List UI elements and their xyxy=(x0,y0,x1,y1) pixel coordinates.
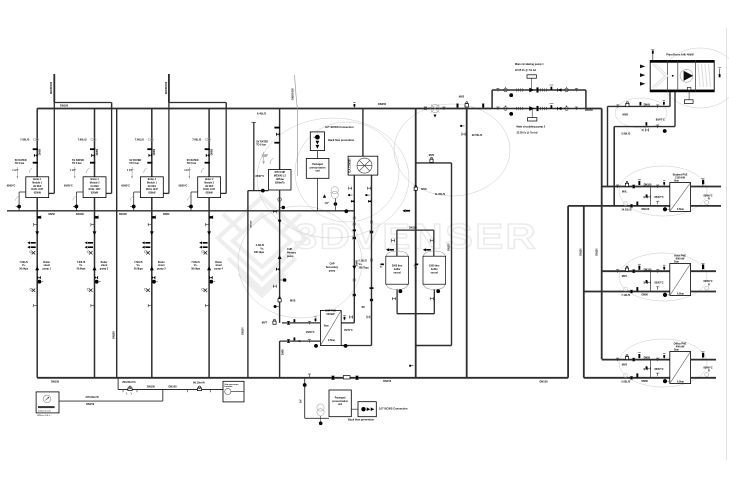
svg-text:96.10m³/h: 96.10m³/h xyxy=(193,381,205,385)
svg-text:MVD: MVD xyxy=(623,114,629,117)
svg-text:pump 2: pump 2 xyxy=(100,268,109,271)
svg-text:6.5bar: 6.5bar xyxy=(677,208,684,211)
svg-text:DN150: DN150 xyxy=(585,109,593,112)
svg-text:vessel: vessel xyxy=(393,271,401,274)
svg-text:DUAL 1047: DUAL 1047 xyxy=(31,188,44,191)
svg-text:WRxxx 8 8 x °: WRxxx 8 8 x ° xyxy=(37,415,51,417)
svg-text:400 kW: 400 kW xyxy=(676,346,685,349)
svg-text:5.60L/S: 5.60L/S xyxy=(621,380,630,383)
svg-text:7.60L/S: 7.60L/S xyxy=(78,137,87,141)
svg-text:1 1/2": 1 1/2" xyxy=(262,155,268,158)
svg-text:5bar: 5bar xyxy=(324,325,329,328)
svg-text:DN100: DN100 xyxy=(169,385,178,389)
svg-text:DN150: DN150 xyxy=(540,379,549,383)
svg-text:Module 1: Module 1 xyxy=(32,183,42,185)
svg-text:0.69L/S: 0.69L/S xyxy=(622,133,631,136)
svg-text:7.60L/S: 7.60L/S xyxy=(20,137,29,141)
svg-text:56.0kpa: 56.0kpa xyxy=(77,268,86,271)
svg-text:MVS: MVS xyxy=(459,96,465,99)
svg-text:DN50: DN50 xyxy=(96,148,99,155)
svg-text:DN250: DN250 xyxy=(378,102,387,106)
svg-text:920kwTh: 920kwTh xyxy=(275,182,285,184)
svg-text:DN150/300: DN150/300 xyxy=(50,81,53,94)
svg-text:ME3042 L3: ME3042 L3 xyxy=(274,175,287,178)
svg-text:Module 1: Module 1 xyxy=(147,183,157,185)
svg-text:DN100: DN100 xyxy=(642,208,650,211)
svg-text:6.40L/S: 6.40L/S xyxy=(257,111,266,115)
svg-text:85/67°C: 85/67°C xyxy=(655,196,664,199)
svg-text:1 1/4": 1 1/4" xyxy=(184,169,190,172)
svg-text:DN80: DN80 xyxy=(642,380,649,383)
svg-text:DUAL 1047: DUAL 1047 xyxy=(203,188,216,191)
svg-text:pump 3: pump 3 xyxy=(157,268,166,271)
svg-text:DN150: DN150 xyxy=(597,248,599,256)
svg-text:unit: unit xyxy=(338,403,342,406)
svg-text:MVT: MVT xyxy=(262,322,268,325)
svg-text:iGi REX: iGi REX xyxy=(148,186,157,188)
svg-text:620kW: 620kW xyxy=(206,192,214,194)
svg-text:1 1/4": 1 1/4" xyxy=(70,169,76,172)
svg-text:iGi REX: iGi REX xyxy=(90,186,99,188)
svg-text:treatment unit: treatment unit xyxy=(38,409,51,412)
svg-text:Module 2: Module 2 xyxy=(90,183,100,185)
svg-text:pressurisation: pressurisation xyxy=(310,166,326,169)
svg-text:TO 6 bar: TO 6 bar xyxy=(15,162,25,165)
svg-text:Main circulating pump 1: Main circulating pump 1 xyxy=(515,63,544,66)
svg-text:MVC: MVC xyxy=(622,275,628,278)
svg-text:1 1/4": 1 1/4" xyxy=(12,169,18,172)
svg-text:unit: unit xyxy=(315,170,319,173)
svg-text:197kwe: 197kwe xyxy=(276,179,285,181)
svg-text:DN150: DN150 xyxy=(581,248,583,256)
svg-text:DUAL 1047: DUAL 1047 xyxy=(146,188,159,191)
svg-text:56.0kpa: 56.0kpa xyxy=(191,268,200,271)
svg-text:DN150: DN150 xyxy=(51,380,60,384)
svg-text:R: R xyxy=(708,370,710,373)
svg-text:Boiler 2: Boiler 2 xyxy=(205,178,214,181)
svg-text:300.7kpa: 300.7kpa xyxy=(359,267,370,270)
svg-text:196.1kpa: 196.1kpa xyxy=(254,251,265,254)
svg-text:TO 6 bar: TO 6 bar xyxy=(129,162,139,165)
svg-text:DN150/300: DN150/300 xyxy=(165,81,168,94)
svg-text:MVS: MVS xyxy=(429,154,435,157)
svg-text:14.10L/S: 14.10L/S xyxy=(621,209,631,212)
svg-text:620kW: 620kW xyxy=(34,192,42,194)
svg-text:5bar: 5bar xyxy=(674,180,679,183)
svg-text:Plant Room AHU 45kW: Plant Room AHU 45kW xyxy=(666,54,694,57)
svg-text:3|: 3| xyxy=(642,129,644,132)
svg-text:DN50: DN50 xyxy=(163,213,170,216)
svg-text:7.60L/S: 7.60L/S xyxy=(192,137,201,141)
svg-text:Boiler 1: Boiler 1 xyxy=(33,178,42,181)
svg-text:DN150: DN150 xyxy=(86,402,95,406)
svg-text:Packaged: Packaged xyxy=(335,398,346,400)
svg-text:270.00m³/h: 270.00m³/h xyxy=(86,395,100,399)
svg-text:DN200/150: DN200/150 xyxy=(292,87,294,99)
svg-text:1 1/4": 1 1/4" xyxy=(127,169,133,172)
svg-text:22.55 l/s @ 7m hd: 22.55 l/s @ 7m hd xyxy=(515,69,536,72)
svg-text:1150 kW: 1150 kW xyxy=(675,177,686,180)
svg-text:booster: booster xyxy=(225,385,233,388)
svg-text:85/67°C: 85/67°C xyxy=(655,368,664,371)
svg-text:1/4": 1/4" xyxy=(325,202,329,205)
svg-text:TO 6 bar: TO 6 bar xyxy=(72,162,82,165)
svg-text:pump: pump xyxy=(287,255,294,258)
svg-text:D.A.C DN150: D.A.C DN150 xyxy=(349,158,352,173)
svg-text:TO 6 bar: TO 6 bar xyxy=(256,144,266,147)
svg-text:65/65°C: 65/65°C xyxy=(7,185,16,188)
svg-text:3|: 3| xyxy=(643,196,645,199)
svg-text:DN150: DN150 xyxy=(147,385,156,389)
svg-text:DN100: DN100 xyxy=(243,327,245,335)
svg-text:1/2" BCWS Connection: 1/2" BCWS Connection xyxy=(325,125,354,129)
svg-text:22.55L/S: 22.55L/S xyxy=(472,133,483,137)
svg-text:620kW: 620kW xyxy=(148,192,156,194)
svg-text:DN150: DN150 xyxy=(409,227,417,230)
svg-text:DN100: DN100 xyxy=(644,184,652,187)
svg-text:45/70°C: 45/70°C xyxy=(344,329,353,332)
svg-text:DN150: DN150 xyxy=(383,380,391,383)
svg-text:BC: BC xyxy=(362,306,366,309)
svg-text:22.55 l/s @ 7m hd: 22.55 l/s @ 7m hd xyxy=(517,132,538,135)
svg-text:R: R xyxy=(708,198,710,201)
svg-text:MVL: MVL xyxy=(622,191,628,194)
svg-text:1/2" BCWS Connection: 1/2" BCWS Connection xyxy=(379,406,408,410)
svg-text:R: R xyxy=(708,283,710,286)
svg-text:6.5bar: 6.5bar xyxy=(677,292,684,295)
svg-text:65/65°C: 65/65°C xyxy=(179,185,188,188)
svg-text:65/65°C: 65/65°C xyxy=(121,185,130,188)
svg-text:DN65: DN65 xyxy=(644,103,651,106)
svg-text:iGi REX: iGi REX xyxy=(33,186,42,188)
svg-text:3|: 3| xyxy=(643,368,645,371)
svg-text:DN50: DN50 xyxy=(39,148,42,155)
svg-text:3|: 3| xyxy=(643,282,645,285)
svg-text:DN50: DN50 xyxy=(283,348,285,355)
svg-text:85/67°C: 85/67°C xyxy=(655,282,664,285)
svg-text:65/65°C: 65/65°C xyxy=(64,185,73,188)
svg-text:Back flow prevention: Back flow prevention xyxy=(328,138,355,142)
svg-text:DN50: DN50 xyxy=(153,148,156,155)
svg-text:6.5bar: 6.5bar xyxy=(328,339,335,342)
svg-text:600 kW: 600 kW xyxy=(676,258,685,261)
svg-text:85/67°C: 85/67°C xyxy=(256,175,265,178)
svg-text:6.5bar: 6.5bar xyxy=(677,380,684,383)
svg-text:DUAL 1047: DUAL 1047 xyxy=(89,188,102,191)
svg-text:56.0kpa: 56.0kpa xyxy=(134,268,143,271)
svg-text:MVS: MVS xyxy=(421,188,427,191)
svg-text:DN150: DN150 xyxy=(60,103,69,107)
svg-text:500kW: 500kW xyxy=(327,313,336,316)
svg-text:DN100: DN100 xyxy=(448,243,450,251)
svg-text:56.0kpa: 56.0kpa xyxy=(19,268,28,271)
svg-text:DN50: DN50 xyxy=(49,213,56,216)
svg-text:620kW: 620kW xyxy=(91,192,99,194)
svg-text:DN100: DN100 xyxy=(644,268,652,271)
svg-text:pump 4: pump 4 xyxy=(214,268,223,271)
svg-text:TO 6 bar: TO 6 bar xyxy=(187,162,197,165)
svg-text:DN50: DN50 xyxy=(210,148,213,155)
svg-text:Packaged: Packaged xyxy=(312,164,323,166)
svg-text:1/4": 1/4" xyxy=(300,399,303,403)
svg-text:Module 2: Module 2 xyxy=(204,183,214,185)
svg-text:Main circulating pump 2: Main circulating pump 2 xyxy=(517,126,546,129)
svg-text:250.00m³/h: 250.00m³/h xyxy=(122,380,136,384)
svg-text:DN80: DN80 xyxy=(644,357,651,360)
svg-text:3|: 3| xyxy=(298,340,300,343)
svg-text:11.35L/S: 11.35L/S xyxy=(435,192,446,196)
svg-text:Boiler 2: Boiler 2 xyxy=(148,178,157,181)
svg-text:DN100: DN100 xyxy=(119,213,127,216)
svg-text:Back flow prevention: Back flow prevention xyxy=(348,417,375,421)
svg-text:5bar: 5bar xyxy=(674,261,679,264)
svg-text:5bar: 5bar xyxy=(674,349,679,352)
svg-text:MVS: MVS xyxy=(622,364,628,367)
svg-text:DN100: DN100 xyxy=(76,213,84,216)
svg-text:pump 1: pump 1 xyxy=(42,268,51,271)
svg-text:7.60L/S: 7.60L/S xyxy=(135,137,144,141)
svg-text:pressurisation: pressurisation xyxy=(332,400,348,403)
svg-text:vessel: vessel xyxy=(431,271,439,274)
svg-text:DN80: DN80 xyxy=(642,294,649,297)
svg-text:DN100: DN100 xyxy=(251,220,253,228)
svg-text:85/67°C: 85/67°C xyxy=(656,118,665,121)
svg-text:45/65°C: 45/65°C xyxy=(306,331,315,334)
svg-text:DN150: DN150 xyxy=(113,331,116,339)
svg-text:pump: pump xyxy=(329,269,336,272)
svg-text:iGi REX: iGi REX xyxy=(205,186,214,188)
svg-text:Boiler 1: Boiler 1 xyxy=(90,178,99,181)
svg-text:7.10L/S: 7.10L/S xyxy=(621,294,630,297)
svg-text:MTU CHP: MTU CHP xyxy=(275,172,286,174)
svg-text:MVS: MVS xyxy=(290,300,296,303)
